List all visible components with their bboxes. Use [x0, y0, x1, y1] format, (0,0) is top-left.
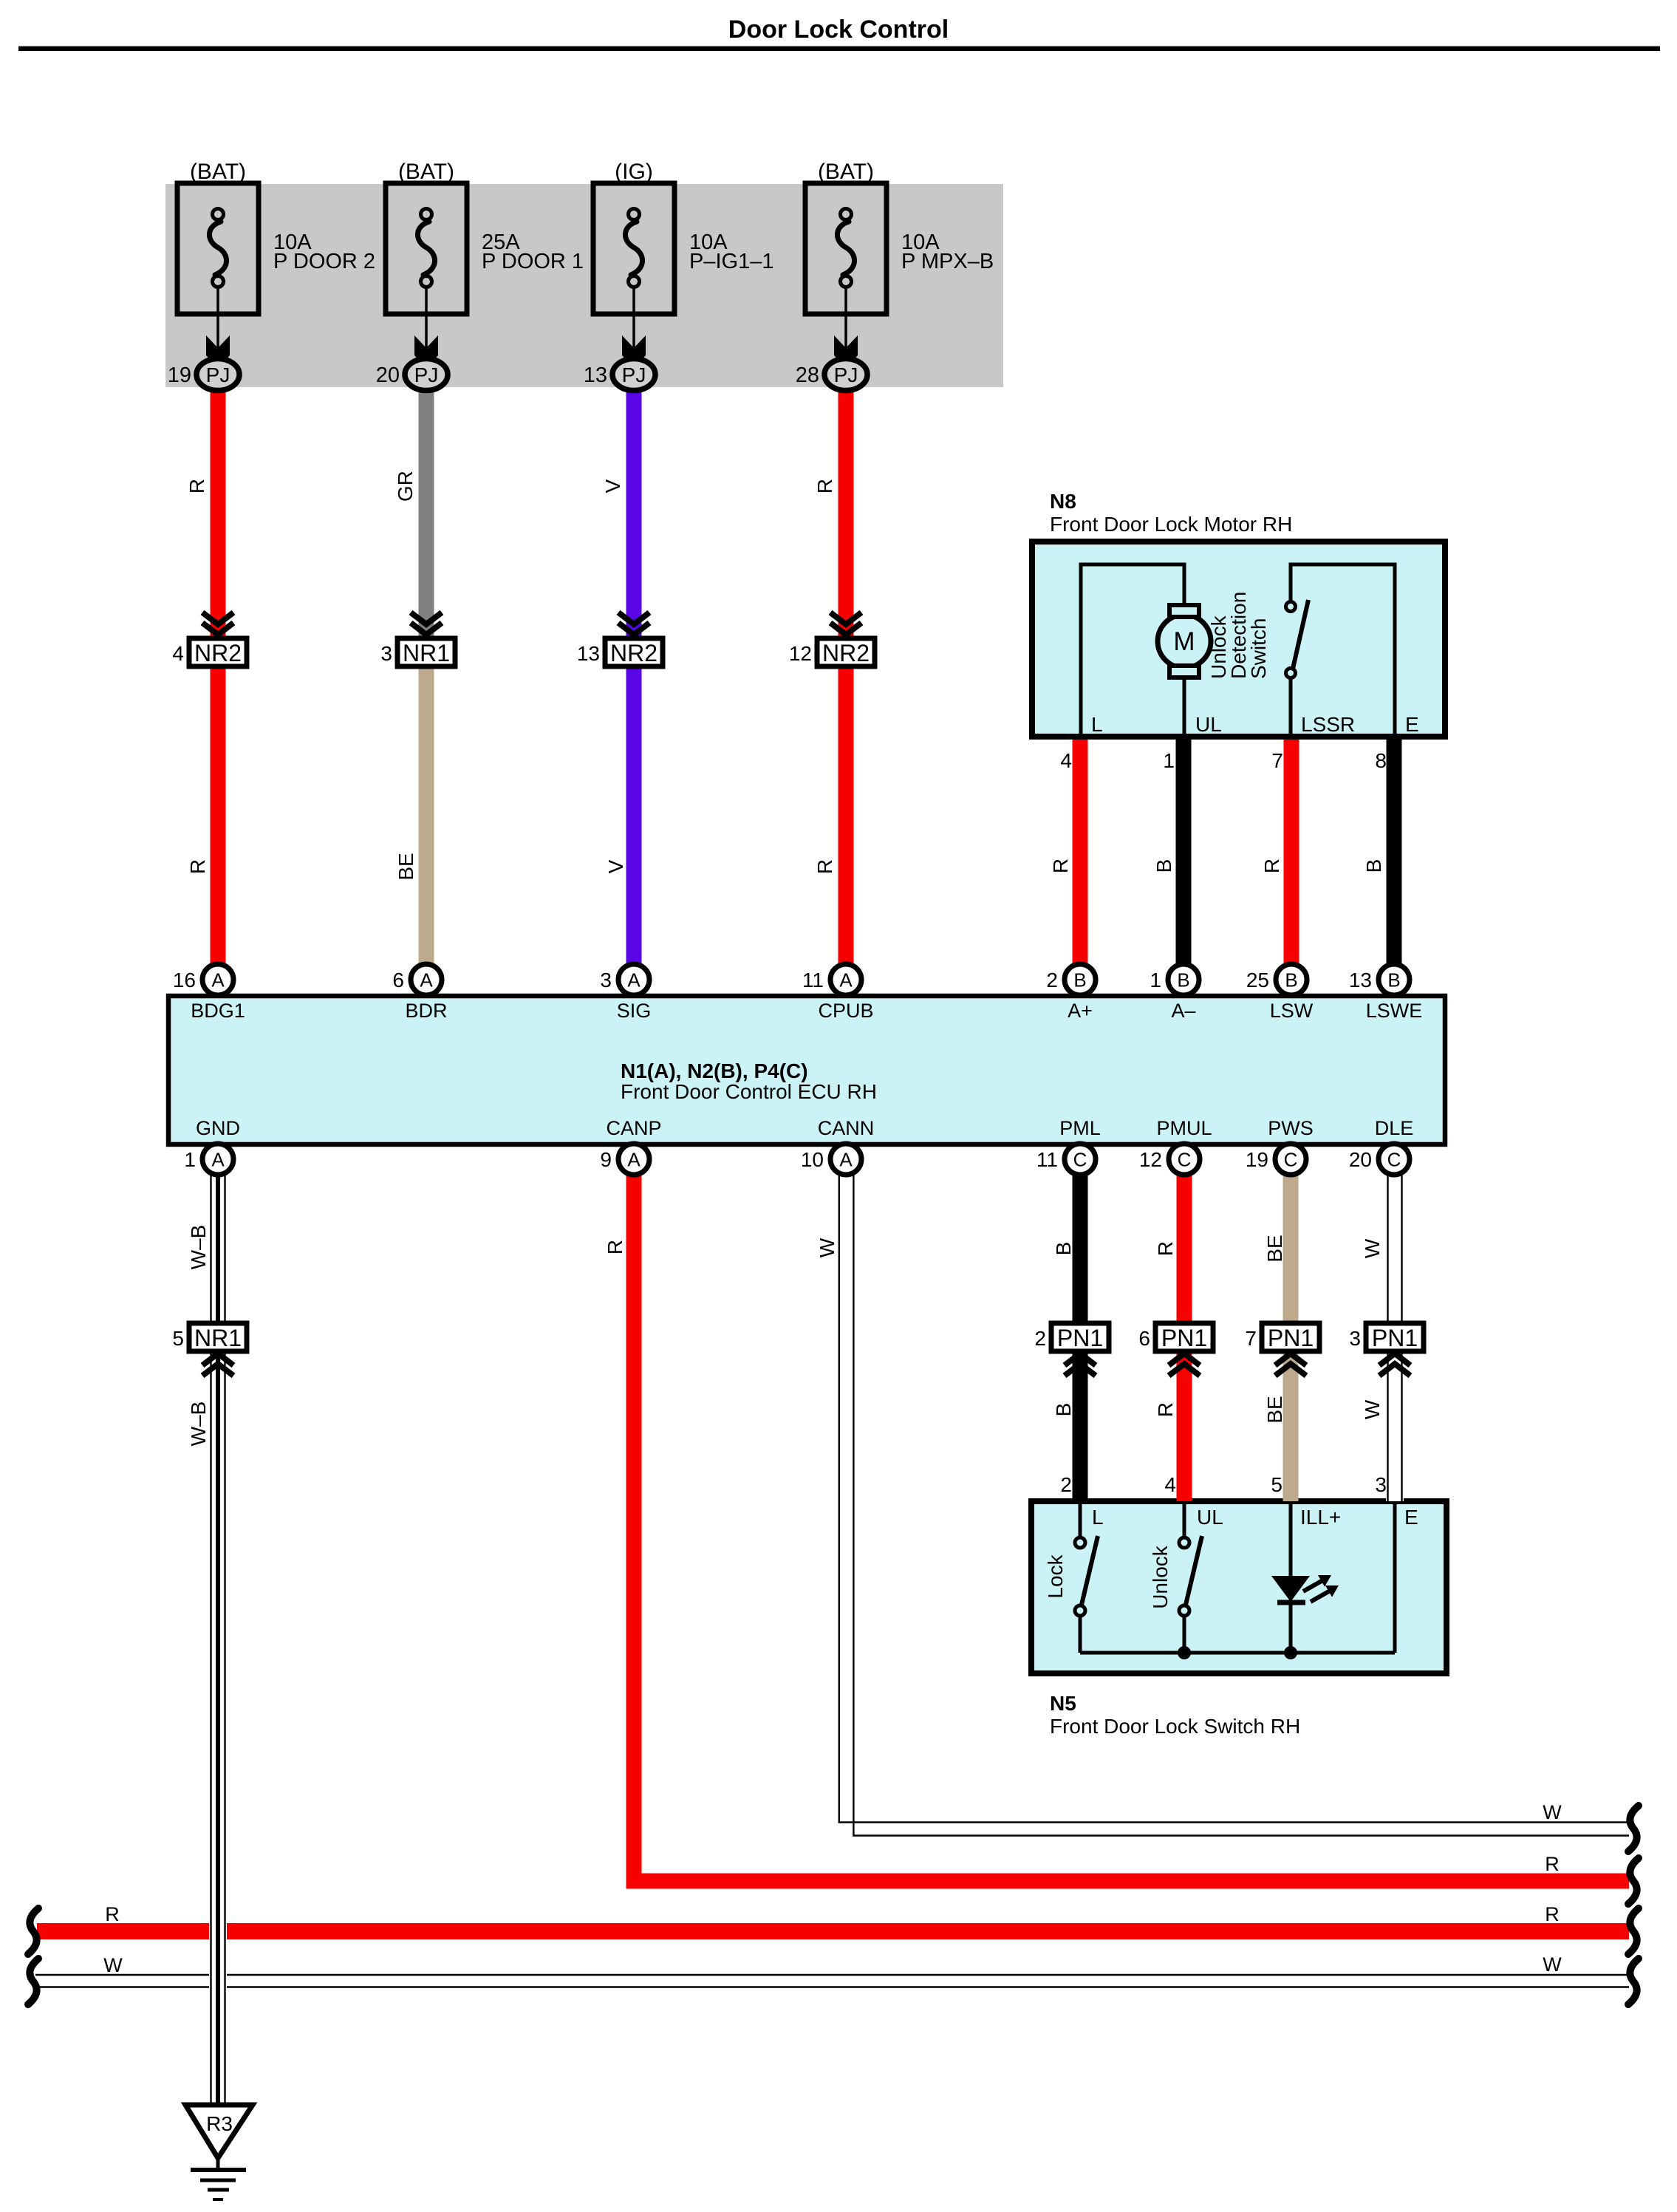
svg-text:7: 7	[1271, 749, 1283, 772]
svg-text:NR2: NR2	[822, 640, 870, 666]
wire R from NR2 to ECU 16(A)	[211, 666, 226, 968]
main red bus wire R	[37, 1923, 1629, 1939]
svg-text:3: 3	[1375, 1473, 1387, 1496]
wire break (right, CANP R)	[1628, 1858, 1639, 1904]
svg-text:R: R	[105, 1903, 120, 1925]
svg-text:(BAT): (BAT)	[398, 160, 454, 184]
wire BE from ECU 19(C) PWS to PN1 and N5 pin5	[1283, 1175, 1299, 1501]
svg-text:BDG1: BDG1	[191, 1000, 245, 1022]
ECU connector 13(B)	[1379, 964, 1410, 995]
svg-text:P–IG1–1: P–IG1–1	[689, 250, 773, 273]
svg-text:P DOOR 1: P DOOR 1	[482, 250, 584, 273]
svg-text:R: R	[604, 1240, 626, 1255]
svg-text:W–B: W–B	[187, 1225, 210, 1270]
ECU connector 3(A)	[618, 964, 649, 995]
svg-text:25: 25	[1246, 969, 1269, 991]
svg-text:16: 16	[173, 969, 196, 991]
Lock switch	[1075, 1537, 1085, 1548]
svg-text:P MPX–B: P MPX–B	[901, 250, 994, 273]
svg-text:NR2: NR2	[610, 640, 658, 666]
svg-text:19: 19	[1246, 1148, 1268, 1171]
svg-text:1: 1	[1163, 749, 1175, 772]
svg-text:2: 2	[1060, 1473, 1072, 1496]
svg-text:10: 10	[801, 1148, 824, 1171]
ECU connector 2(B)	[1065, 964, 1096, 995]
svg-text:C: C	[1178, 1149, 1192, 1171]
svg-text:4: 4	[172, 642, 184, 665]
connector NR2 pin 4	[189, 638, 247, 666]
svg-text:W: W	[1361, 1238, 1384, 1258]
svg-text:BE: BE	[395, 853, 417, 880]
connector PJ pin 19	[197, 359, 239, 391]
N5 common bus wire	[1080, 1651, 1395, 1655]
svg-text:UL: UL	[1195, 713, 1222, 736]
svg-text:12: 12	[1139, 1148, 1162, 1171]
svg-text:PML: PML	[1059, 1117, 1101, 1139]
svg-text:11: 11	[1036, 1148, 1058, 1171]
wire GR from PJ 20 to NR1	[419, 389, 434, 638]
svg-text:2: 2	[1034, 1327, 1046, 1350]
N5 internal wiring	[1080, 1498, 1395, 1653]
svg-text:(IG): (IG)	[615, 160, 653, 184]
svg-text:28: 28	[796, 363, 819, 387]
connector NR1 pin 3	[397, 638, 455, 666]
N5 Front Door Lock Switch RH box	[1031, 1501, 1447, 1673]
wire BE from NR1 to ECU 6(A)	[419, 666, 434, 968]
svg-text:Front Door Control ECU RH: Front Door Control ECU RH	[621, 1080, 877, 1103]
svg-text:R: R	[1545, 1903, 1560, 1925]
svg-text:B: B	[1177, 969, 1189, 991]
svg-text:L: L	[1092, 1506, 1104, 1529]
svg-text:PMUL: PMUL	[1156, 1117, 1212, 1139]
wire break (left, R bus)	[28, 1908, 38, 1954]
connector PJ pin 13	[612, 359, 655, 391]
wire R from N8 pin7 LSSR to ECU 25(B) LSW	[1284, 740, 1299, 968]
svg-text:R: R	[1154, 1402, 1177, 1417]
svg-text:PJ: PJ	[834, 363, 858, 386]
svg-text:GR: GR	[394, 471, 417, 502]
svg-text:CANN: CANN	[818, 1117, 875, 1139]
wire V from PJ 13 to NR2	[626, 389, 642, 638]
wire V from NR2 to ECU 3(A)	[626, 666, 642, 968]
svg-text:W: W	[816, 1238, 838, 1257]
ECU connector 19(C)	[1275, 1144, 1306, 1175]
svg-text:A: A	[839, 969, 853, 991]
svg-text:CANP: CANP	[606, 1117, 661, 1139]
N8 Front Door Lock Motor RH box	[1032, 542, 1445, 737]
svg-text:Switch: Switch	[1247, 618, 1270, 679]
connector PN1 pin 6	[1155, 1323, 1213, 1351]
svg-text:BE: BE	[1263, 1235, 1286, 1262]
svg-text:R: R	[1154, 1241, 1177, 1256]
svg-text:20: 20	[1349, 1148, 1372, 1171]
svg-text:3: 3	[600, 969, 612, 991]
svg-text:W: W	[1543, 1953, 1562, 1976]
svg-text:PJ: PJ	[622, 363, 646, 386]
svg-text:R: R	[1545, 1853, 1560, 1875]
connector PN1 pin 2	[1051, 1323, 1109, 1351]
svg-text:C: C	[1073, 1149, 1087, 1171]
wire R from PJ 19 to NR2	[211, 389, 226, 638]
ECU connector 12(C)	[1169, 1144, 1200, 1175]
svg-text:11: 11	[802, 969, 824, 991]
svg-text:W: W	[1543, 1801, 1562, 1823]
svg-text:3: 3	[1349, 1327, 1361, 1350]
svg-text:LSW: LSW	[1270, 1000, 1314, 1022]
N8 internal wiring	[1081, 564, 1395, 737]
ECU connector 16(A)	[202, 964, 233, 995]
ground R3	[185, 2105, 253, 2158]
ECU connector 10(A)	[830, 1144, 861, 1175]
svg-text:V: V	[604, 859, 627, 873]
ECU connector 11(A)	[830, 964, 861, 995]
chevron (in-line connector entry) x=577	[411, 612, 442, 624]
svg-text:M: M	[1173, 627, 1195, 656]
chevron (in-line connector entry) x=295	[202, 612, 233, 624]
svg-text:DLE: DLE	[1375, 1117, 1414, 1139]
svg-text:R: R	[185, 479, 208, 494]
svg-text:PN1: PN1	[1268, 1325, 1314, 1351]
svg-text:R: R	[813, 859, 836, 874]
svg-text:W–B: W–B	[187, 1402, 210, 1447]
svg-text:(BAT): (BAT)	[818, 160, 874, 184]
ECU connector 9(A)	[618, 1144, 649, 1175]
connector PJ pin 20	[405, 359, 448, 391]
svg-text:N1(A), N2(B), P4(C): N1(A), N2(B), P4(C)	[621, 1059, 808, 1082]
svg-text:BDR: BDR	[405, 1000, 447, 1022]
svg-text:B: B	[1387, 969, 1400, 991]
wire R from N8 pin4 L to ECU 2(B) A+	[1073, 740, 1088, 968]
svg-text:1: 1	[1150, 969, 1161, 991]
svg-text:R: R	[813, 479, 836, 494]
svg-text:A+: A+	[1068, 1000, 1093, 1022]
chevron (in-line connector entry) x=1145	[830, 612, 861, 624]
svg-text:L: L	[1091, 713, 1103, 736]
svg-text:R: R	[186, 859, 209, 874]
connector NR1 pin 5	[189, 1323, 247, 1351]
svg-text:19: 19	[168, 363, 191, 387]
svg-text:7: 7	[1245, 1327, 1257, 1350]
wire R from NR2 to ECU 11(A)	[838, 666, 854, 968]
svg-text:A: A	[420, 969, 433, 991]
chevron (in-line connector entry) x=858	[618, 612, 649, 624]
svg-text:R: R	[1260, 858, 1283, 873]
svg-text:3: 3	[380, 642, 392, 665]
connector PJ pin 28	[824, 359, 867, 391]
svg-text:Unlock: Unlock	[1149, 1545, 1172, 1609]
svg-text:B: B	[1362, 859, 1385, 873]
svg-text:1: 1	[184, 1148, 196, 1171]
svg-text:CPUB: CPUB	[818, 1000, 873, 1022]
svg-text:A–: A–	[1171, 1000, 1195, 1022]
svg-text:PJ: PJ	[206, 363, 230, 386]
wire B from N8 pin1 UL to ECU 1(B) A-	[1176, 740, 1192, 968]
arrow from fuse to PJ	[632, 287, 635, 372]
svg-text:PJ: PJ	[414, 363, 439, 386]
wire B from ECU 11(C) PML to PN1 and N5 pin2	[1073, 1175, 1088, 1501]
svg-text:PN1: PN1	[1057, 1325, 1103, 1351]
svg-text:8: 8	[1375, 749, 1387, 772]
ECU connector 20(C)	[1379, 1144, 1410, 1175]
ECU connector 11(C)	[1065, 1144, 1096, 1175]
main white bus wire W	[35, 1974, 1629, 1976]
svg-text:4: 4	[1060, 749, 1072, 772]
svg-text:R: R	[1049, 858, 1072, 873]
wire B from N8 pin8 E to ECU 13(B) LSWE	[1387, 740, 1402, 968]
svg-text:Lock: Lock	[1044, 1554, 1067, 1598]
svg-text:GND: GND	[196, 1117, 240, 1139]
svg-text:BE: BE	[1263, 1396, 1286, 1423]
svg-text:SIG: SIG	[617, 1000, 652, 1022]
svg-text:B: B	[1152, 859, 1175, 873]
wire W from ECU 20(C) DLE to PN1 and N5 pin3	[1386, 1175, 1404, 1501]
svg-text:LSSR: LSSR	[1301, 713, 1355, 736]
svg-text:A: A	[211, 969, 225, 991]
wire break (right, CANN W)	[1628, 1806, 1639, 1851]
wire W-B from ECU 1(A) GND to ground R3	[209, 1175, 227, 2105]
svg-text:NR1: NR1	[194, 1325, 242, 1351]
svg-text:N8: N8	[1050, 490, 1076, 513]
wire break (left, W bus)	[28, 1959, 38, 2004]
LED illumination (ILL+)	[1271, 1576, 1310, 1602]
svg-text:E: E	[1405, 713, 1419, 736]
CANP red wire elbow to right edge	[634, 1175, 1629, 1881]
svg-text:(BAT): (BAT)	[190, 160, 246, 184]
svg-text:5: 5	[172, 1327, 184, 1350]
svg-text:C: C	[1387, 1149, 1401, 1171]
svg-text:13: 13	[584, 363, 607, 387]
unlock detection switch	[1286, 602, 1296, 612]
svg-text:13: 13	[577, 642, 600, 665]
svg-text:A: A	[627, 969, 641, 991]
ECU connector 1(B)	[1168, 964, 1199, 995]
svg-text:N5: N5	[1050, 1692, 1076, 1715]
svg-text:6: 6	[392, 969, 404, 991]
svg-text:B: B	[1285, 969, 1297, 991]
connector PN1 pin 7	[1262, 1323, 1319, 1351]
wire R from PJ 28 to NR2	[838, 389, 854, 638]
arrow from fuse to PJ	[844, 287, 847, 372]
svg-text:20: 20	[376, 363, 400, 387]
Unlock switch	[1179, 1537, 1189, 1548]
svg-text:W: W	[1361, 1399, 1384, 1419]
connector NR2 pin 12	[817, 638, 875, 666]
svg-text:PN1: PN1	[1372, 1325, 1418, 1351]
wire R from ECU 12(C) PMUL to PN1 and N5 pin4	[1177, 1175, 1192, 1501]
connector NR2 pin 13	[605, 638, 663, 666]
svg-text:NR1: NR1	[403, 640, 450, 666]
svg-text:6: 6	[1138, 1327, 1150, 1350]
ECU connector 1(A)	[202, 1144, 233, 1175]
svg-text:P DOOR 2: P DOOR 2	[273, 250, 375, 273]
svg-text:B: B	[1052, 1242, 1075, 1256]
ECU connector 6(A)	[411, 964, 442, 995]
svg-text:Front Door Lock Switch RH: Front Door Lock Switch RH	[1050, 1715, 1300, 1738]
motor M (door lock motor)	[1158, 615, 1211, 668]
svg-text:13: 13	[1349, 969, 1372, 991]
svg-text:ILL+: ILL+	[1300, 1506, 1341, 1529]
arrow from fuse to PJ	[425, 287, 428, 372]
svg-text:C: C	[1284, 1149, 1298, 1171]
svg-text:2: 2	[1046, 969, 1058, 991]
wire break (right, W bus)	[1628, 1959, 1639, 2004]
ECU connector 25(B)	[1276, 964, 1307, 995]
wire break (right, R bus)	[1628, 1908, 1639, 1954]
svg-text:9: 9	[600, 1148, 612, 1171]
svg-text:4: 4	[1164, 1473, 1176, 1496]
arrow from fuse to PJ	[216, 287, 219, 372]
svg-text:A: A	[839, 1149, 853, 1171]
CANN white wire elbow to right edge	[839, 1175, 1629, 1823]
svg-text:12: 12	[789, 642, 812, 665]
connector PN1 pin 3	[1366, 1323, 1424, 1351]
ECU N1(A),N2(B),P4(C) Front Door Control ECU RH box	[168, 996, 1445, 1144]
svg-text:LSWE: LSWE	[1366, 1000, 1423, 1022]
svg-text:PWS: PWS	[1268, 1117, 1314, 1139]
svg-text:B: B	[1073, 969, 1086, 991]
svg-text:PN1: PN1	[1161, 1325, 1207, 1351]
title rule	[18, 47, 1660, 52]
svg-text:5: 5	[1271, 1473, 1282, 1496]
svg-text:W: W	[103, 1954, 123, 1976]
svg-text:Front Door Lock Motor RH: Front Door Lock Motor RH	[1050, 513, 1292, 536]
svg-text:A: A	[211, 1149, 225, 1171]
svg-text:UL: UL	[1197, 1506, 1223, 1529]
junction block panel (gray)	[165, 184, 1003, 387]
svg-text:Door Lock Control: Door Lock Control	[728, 16, 949, 44]
svg-text:A: A	[627, 1149, 641, 1171]
svg-text:NR2: NR2	[194, 640, 242, 666]
svg-text:E: E	[1404, 1506, 1418, 1529]
svg-text:V: V	[601, 479, 624, 493]
svg-text:B: B	[1052, 1403, 1075, 1417]
svg-text:R3: R3	[206, 2112, 233, 2135]
